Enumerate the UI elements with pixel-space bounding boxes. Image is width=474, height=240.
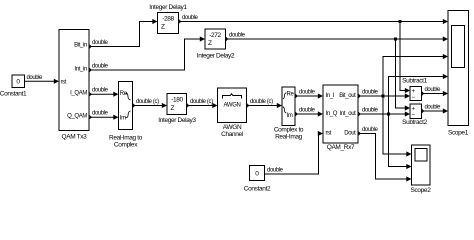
wire QAM Tx3 I_QAM to Re [89, 88, 119, 97]
svg-text:AWGN: AWGN [223, 103, 240, 109]
svg-text:Constant2: Constant2 [244, 185, 271, 192]
svg-text:double: double [92, 40, 109, 46]
wire Int_out branch up to Scope1 input4 [389, 74, 449, 114]
svg-text:AWGN: AWGN [223, 124, 242, 131]
svg-text:-180: -180 [171, 97, 183, 104]
svg-text:Int_in: Int_in [74, 67, 87, 73]
wire AWGN Channel to Complex to Real-Imag [247, 99, 283, 108]
output chevrons QAM_Rx7 [358, 94, 360, 136]
wire Re to QAM_Rx7 In_I [295, 90, 323, 99]
wire Subtract1 to Scope1 input5 [422, 87, 449, 96]
block Integer Delay3 [158, 94, 196, 124]
svg-text:rst: rst [61, 79, 67, 85]
constant block Constant2 [244, 166, 271, 193]
svg-text:double: double [27, 75, 44, 81]
wire Real-Imag to Complex to Integer Delay3 [133, 99, 168, 108]
wire QAM Tx3 Q_QAM to Im [89, 111, 119, 120]
output chevrons Complex to Real-Imag [295, 94, 297, 116]
svg-text:Integer Delay3: Integer Delay3 [158, 117, 196, 124]
junction Int_out node [387, 112, 390, 115]
wire Constant1 to QAM Tx3 rst [25, 75, 60, 84]
svg-text:In_Q: In_Q [326, 111, 338, 117]
svg-text:Scope2: Scope2 [411, 187, 432, 194]
wire Integer Delay2 output to Scope1 input2 [226, 33, 449, 42]
svg-text:double: double [362, 90, 379, 96]
svg-text:double: double [92, 64, 109, 70]
svg-text:double (c): double (c) [136, 99, 159, 105]
svg-text:Scope1: Scope1 [448, 130, 469, 137]
junction Delay2 node [394, 37, 397, 40]
block Integer Delay1 [149, 4, 187, 33]
wire Bit_out branch down to Scope2 input1 [383, 96, 412, 157]
svg-text:0: 0 [16, 78, 20, 85]
svg-text:QAM Tx3: QAM Tx3 [62, 134, 88, 141]
svg-text:-272: -272 [209, 32, 221, 39]
block Integer Delay2 [197, 29, 235, 60]
svg-text:rst: rst [326, 131, 332, 137]
svg-text:double (c): double (c) [250, 99, 273, 105]
svg-text:I_QAM: I_QAM [70, 90, 87, 96]
wire Integer Delay3 to AWGN Channel [187, 99, 218, 108]
wire Constant2 to QAM_Rx7 rst [265, 131, 324, 174]
wire Subtract2 to Scope1 input6 [422, 105, 449, 114]
svg-text:Im: Im [287, 113, 293, 119]
svg-text:Re: Re [287, 92, 295, 98]
svg-text:double: double [425, 105, 442, 111]
output chevron Integer Delay3 [187, 104, 189, 108]
wire Bit_out branch up to Scope1 input3 [383, 54, 448, 96]
svg-text:double (c): double (c) [190, 99, 213, 105]
wire Im to QAM_Rx7 In_Q [295, 108, 323, 117]
svg-text:Constant1: Constant1 [0, 91, 27, 98]
block Subtract1 [402, 78, 427, 101]
svg-text:Int_out: Int_out [340, 111, 357, 117]
output chevron Subtract2 [422, 109, 424, 113]
output chevrons QAM Tx3 [89, 45, 91, 120]
output chevron Integer Delay2 [226, 37, 228, 41]
svg-text:double: double [425, 87, 442, 93]
svg-text:Q_QAM: Q_QAM [67, 113, 87, 119]
output chevron AWGN Channel [247, 104, 249, 108]
svg-text:Complex to: Complex to [274, 127, 304, 134]
subsystem block QAM_Rx7 [323, 85, 358, 151]
svg-text:0: 0 [255, 170, 259, 177]
svg-text:Z: Z [208, 40, 212, 47]
svg-text:double: double [92, 111, 109, 117]
block AWGN Channel [218, 88, 247, 138]
wire Int_out to Subtract2 minus [358, 108, 410, 117]
output chevron Integer Delay1 [179, 20, 181, 24]
svg-text:In_I: In_I [326, 93, 335, 99]
svg-text:double: double [299, 108, 316, 114]
svg-text:Subtract2: Subtract2 [402, 119, 427, 126]
svg-text:Complex: Complex [114, 142, 138, 149]
svg-text:Z: Z [161, 24, 165, 31]
svg-text:double: double [267, 168, 284, 174]
svg-text:double: double [362, 108, 379, 114]
svg-text:double: double [229, 33, 246, 39]
wire Dout to Scope2 input3 [358, 127, 412, 182]
svg-text:Re: Re [120, 91, 128, 97]
svg-text:Integer Delay2: Integer Delay2 [197, 53, 235, 60]
wire QAM Tx3 Int_in to Integer Delay2 [89, 36, 205, 70]
svg-text:Real-Imag to: Real-Imag to [109, 135, 143, 142]
svg-text:double: double [299, 90, 316, 96]
svg-text:QAM_Rx7: QAM_Rx7 [327, 144, 355, 151]
wire Int_out branch down to Scope2 input2 [389, 114, 412, 169]
output chevron Real-Imag to Complex [133, 104, 135, 108]
svg-text:Dout: Dout [344, 131, 356, 137]
block Subtract2 [402, 104, 427, 126]
scope block Scope1 [448, 11, 469, 137]
wire QAM Tx3 Bit_in to Integer Delay1 [89, 19, 158, 47]
wire Bit_out to Subtract1 minus [358, 90, 410, 99]
wire Delay2 branch to Subtract2 plus [396, 39, 411, 111]
svg-text:double: double [182, 15, 199, 21]
output chevron Subtract1 [422, 92, 424, 96]
svg-text:Z: Z [171, 105, 175, 112]
junction Bit_out node [381, 94, 384, 97]
svg-text:double: double [92, 88, 109, 94]
svg-text:Bit_out: Bit_out [339, 93, 356, 99]
svg-text:double: double [362, 127, 379, 133]
subsystem block QAM Tx3 [59, 30, 89, 141]
svg-text:Real-Imag: Real-Imag [275, 134, 303, 141]
scope block Scope2 [411, 145, 432, 194]
junction Delay1 node [398, 20, 401, 23]
wire Delay1 branch to Subtract1 plus [400, 22, 410, 94]
svg-text:Integer Delay1: Integer Delay1 [149, 4, 187, 11]
svg-text:Channel: Channel [221, 131, 244, 138]
svg-text:-288: -288 [162, 16, 174, 23]
svg-text:Im: Im [120, 115, 126, 121]
svg-text:Bit_in: Bit_in [74, 43, 87, 49]
wire Integer Delay1 output to Scope1 input1 [179, 15, 449, 24]
block Complex to Real-Imag [274, 87, 304, 141]
constant block Constant1 [0, 75, 27, 98]
svg-text:Subtract1: Subtract1 [402, 78, 427, 85]
block Real-Imag to Complex [109, 82, 143, 149]
